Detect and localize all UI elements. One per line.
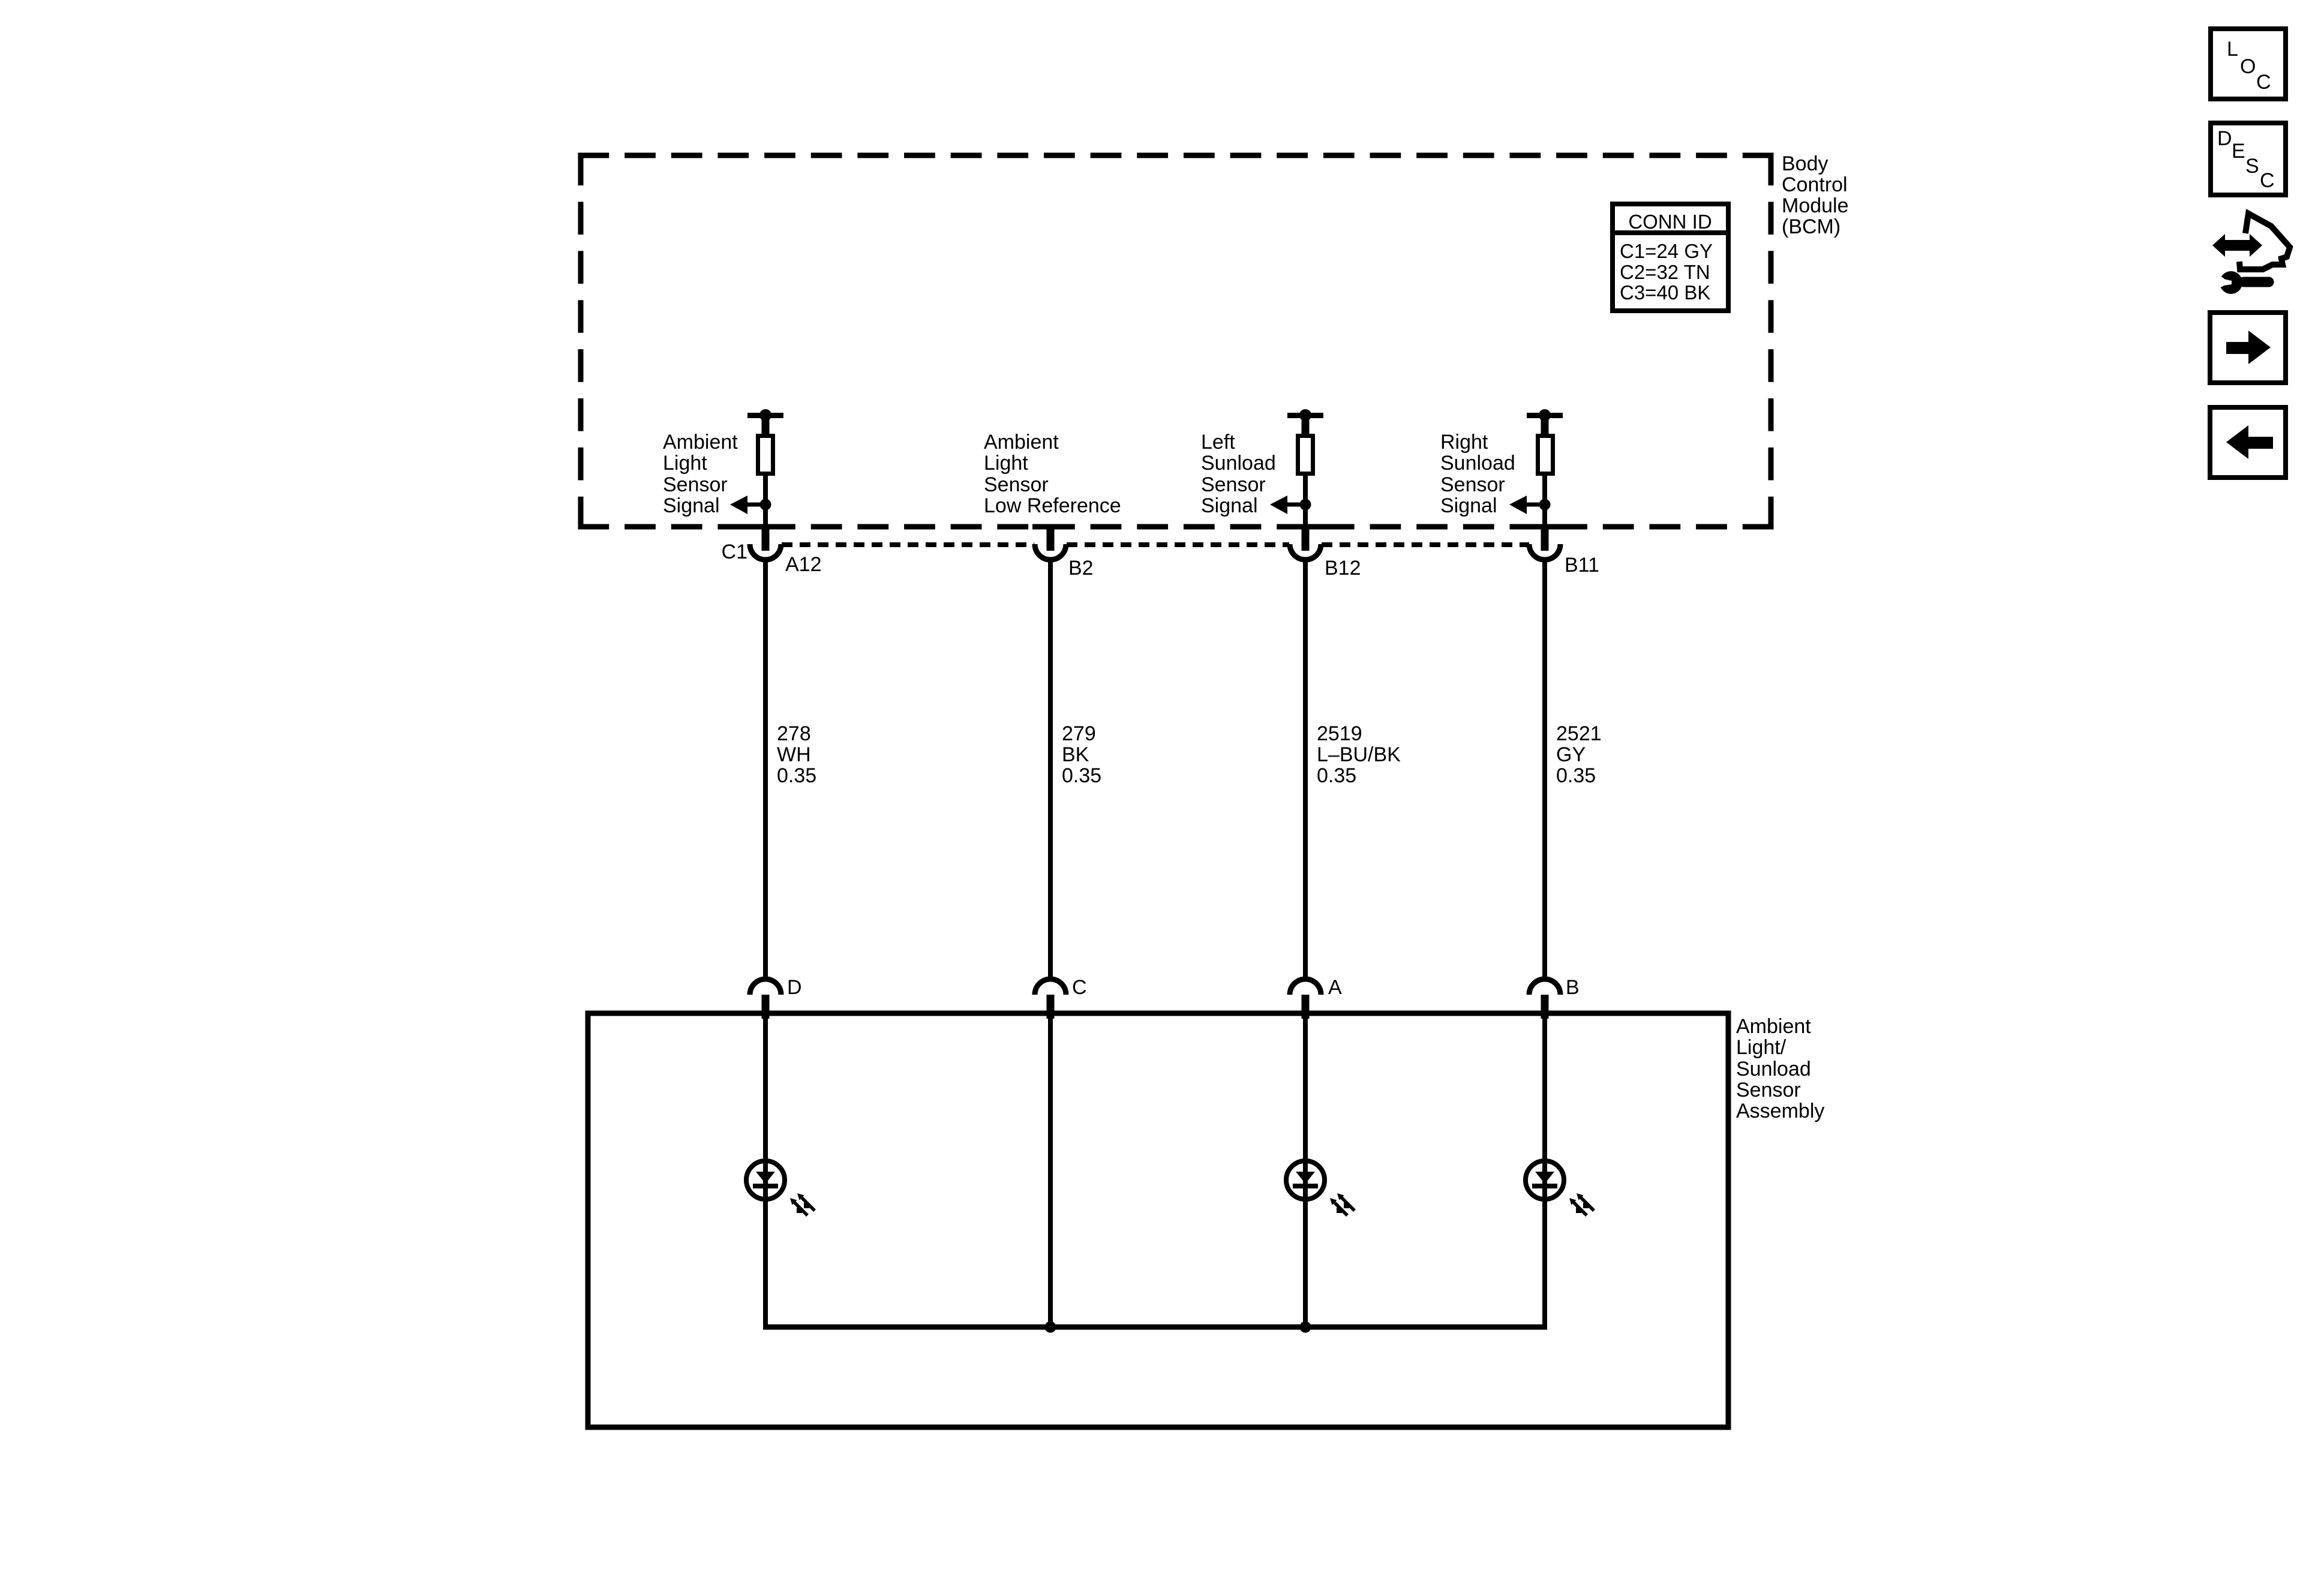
pin B terminal (cap + pin) [1529,979,1560,1019]
svg-text:Light/: Light/ [1736,1036,1786,1059]
label: Ambient Light/Sunload Sensor Assembly [1736,1015,1824,1122]
CONN ID table [1613,204,1728,311]
svg-text:B12: B12 [1325,557,1361,580]
Ambient Light/Sunload Sensor Assembly box [588,1013,1728,1427]
svg-text:Sunload: Sunload [1736,1058,1811,1080]
svg-text:C: C [1072,976,1087,999]
wire: pin D down to bus (through photodiode) [763,1018,768,1327]
wire: R1 bottom to BCM edge [763,476,768,527]
label: circuit 279 BK 0.35 [1062,722,1101,787]
node: junction dot col 1 [760,499,771,511]
label: Left Sunload Sensor Signal [1201,431,1276,517]
svg-text:Signal: Signal [1440,494,1497,517]
BCM dashed outline box [578,153,1774,530]
svg-text:O: O [2240,55,2256,78]
svg-text:B2: B2 [1068,557,1094,580]
svg-text:D: D [787,976,802,999]
resistor (ambient light sensor pull-up, col 1) [758,436,773,474]
svg-text:0.35: 0.35 [1317,764,1356,787]
wire: common bus inside sensor assembly [763,1325,1547,1330]
pin D terminal (cap + pin) [750,979,781,1019]
svg-text:(BCM): (BCM) [1782,215,1840,238]
Body Control Module (BCM) label [1782,152,1849,238]
svg-text:A: A [1328,976,1342,999]
svg-text:Module: Module [1782,194,1849,217]
svg-text:278: 278 [777,722,811,745]
pin A terminal (cap + pin) [1290,979,1321,1019]
node: wire crossing tick at BCM edge x=1276 [747,524,783,530]
photodiode (left sunload sensor) [1286,1161,1325,1199]
icon: diagnostic wrench/connector symbol [2212,214,2290,294]
node: junction dot col 4 [1539,499,1551,511]
svg-text:Ambient: Ambient [984,431,1059,454]
svg-text:0.35: 0.35 [777,764,816,787]
svg-text:C1=24 GY: C1=24 GY [1620,240,1713,262]
label: circuit 2521 GY 0.35 [1556,722,1602,787]
wire 2519 L-BU/BK 0.35 (col 3 harness) [1303,561,1308,979]
svg-text:C3=40 BK: C3=40 BK [1620,281,1710,304]
wire 279 BK 0.35 (col 2 harness) [1048,561,1053,979]
svg-text:Right: Right [1440,431,1488,454]
svg-text:D: D [2217,127,2232,150]
svg-text:Low Reference: Low Reference [984,494,1121,517]
wire 2521 GY 0.35 (col 4 harness) [1542,561,1547,979]
photodiode (right sunload sensor) [1526,1161,1564,1199]
photodiode (ambient light sensor) [746,1161,785,1199]
svg-text:Ambient: Ambient [1736,1015,1811,1038]
svg-text:WH: WH [777,743,811,766]
wire: pin B down to bus (through photodiode) [1542,1018,1547,1327]
wire: R3 bottom to BCM edge [1542,476,1547,527]
icon: next arrow box [2210,313,2286,383]
svg-text:B11: B11 [1565,554,1599,577]
svg-text:Sensor: Sensor [1736,1079,1801,1101]
svg-text:0.35: 0.35 [1556,764,1596,787]
svg-text:S: S [2245,155,2259,178]
svg-text:Signal: Signal [663,494,720,517]
node: internal BCM tie bar above R3 (col 4) [1527,409,1563,434]
node: bus junction at pin C wire [1045,1322,1056,1333]
resistor (right sunload sensor pull-up, col 4) [1538,436,1553,474]
wire: pin C down to bus [1048,1018,1053,1327]
svg-text:C1: C1 [722,541,747,563]
svg-text:L–BU/BK: L–BU/BK [1317,743,1401,766]
node: junction dot col 3 [1300,499,1311,511]
wire 278 WH 0.35 (col 1 harness) [763,561,768,979]
arrow: Left Sunload Sensor Signal [1270,496,1305,514]
label: circuit 2519 L-BU/BK 0.35 [1317,722,1401,787]
label: circuit 278 WH 0.35 [777,722,816,787]
svg-text:E: E [2232,140,2245,163]
pin B2 terminal (pin + cup) [1035,524,1066,560]
svg-text:0.35: 0.35 [1062,764,1101,787]
connector C1 dotted line [782,542,1529,547]
node: internal BCM tie bar above R1 [747,409,783,434]
svg-text:Sunload: Sunload [1201,452,1276,475]
pin B12 terminal (pin + cup) [1290,524,1321,560]
svg-text:Light: Light [984,452,1028,475]
svg-text:C: C [2256,71,2271,94]
wire: pin A down to bus (through photodiode) [1303,1018,1308,1327]
icon: previous arrow box [2210,407,2286,478]
svg-text:2519: 2519 [1317,722,1362,745]
svg-text:Assembly: Assembly [1736,1100,1824,1122]
svg-text:Ambient: Ambient [663,431,738,454]
resistor (left sunload sensor pull-up, col 3) [1298,436,1313,474]
node: wire crossing tick at BCM edge x=1751 [1032,524,1068,530]
svg-text:Sensor: Sensor [1201,473,1266,496]
svg-text:L: L [2227,38,2238,61]
arrow: Ambient Light Sensor Signal [730,496,765,514]
pin A12 terminal (pin + cup) [750,524,781,560]
icon: DESC box [2211,123,2286,195]
svg-text:B: B [1566,976,1580,999]
svg-text:A12: A12 [785,553,822,576]
svg-text:CONN ID: CONN ID [1628,211,1712,233]
arrow: Right Sunload Sensor Signal [1509,496,1545,514]
svg-text:BK: BK [1062,743,1089,766]
svg-text:Sensor: Sensor [663,473,728,496]
wire: R2 bottom to BCM edge [1303,476,1308,527]
node: wire crossing tick at BCM edge x=2176 [1287,524,1323,530]
pin C terminal (cap + pin) [1035,979,1066,1019]
label: Ambient Light Sensor Low Reference [984,431,1121,517]
svg-text:GY: GY [1556,743,1586,766]
node: internal BCM tie bar above R2 (col 3) [1287,409,1323,434]
svg-text:279: 279 [1062,722,1096,745]
node: bus junction at pin A wire [1300,1322,1311,1333]
label: Ambient Light Sensor Signal [663,431,738,517]
svg-text:Sunload: Sunload [1440,452,1515,475]
svg-text:Left: Left [1201,431,1235,454]
photodiode light arrows (col 3) [1330,1193,1355,1215]
svg-text:Light: Light [663,452,707,475]
icon: LOC box [2211,29,2286,99]
photodiode light arrows (col 1) [790,1193,815,1215]
node: wire crossing tick at BCM edge x=2575 [1527,524,1563,530]
photodiode light arrows (col 4) [1569,1193,1594,1215]
svg-text:Sensor: Sensor [1440,473,1505,496]
svg-text:C: C [2260,169,2275,192]
svg-text:Body: Body [1782,152,1828,175]
svg-text:2521: 2521 [1556,722,1602,745]
svg-text:C2=32 TN: C2=32 TN [1620,261,1710,283]
label: Right Sunload Sensor Signal [1440,431,1515,517]
svg-text:Signal: Signal [1201,494,1258,517]
pin B11 terminal (pin + cup) [1529,524,1560,560]
svg-text:Control: Control [1782,173,1848,196]
svg-text:Sensor: Sensor [984,473,1049,496]
